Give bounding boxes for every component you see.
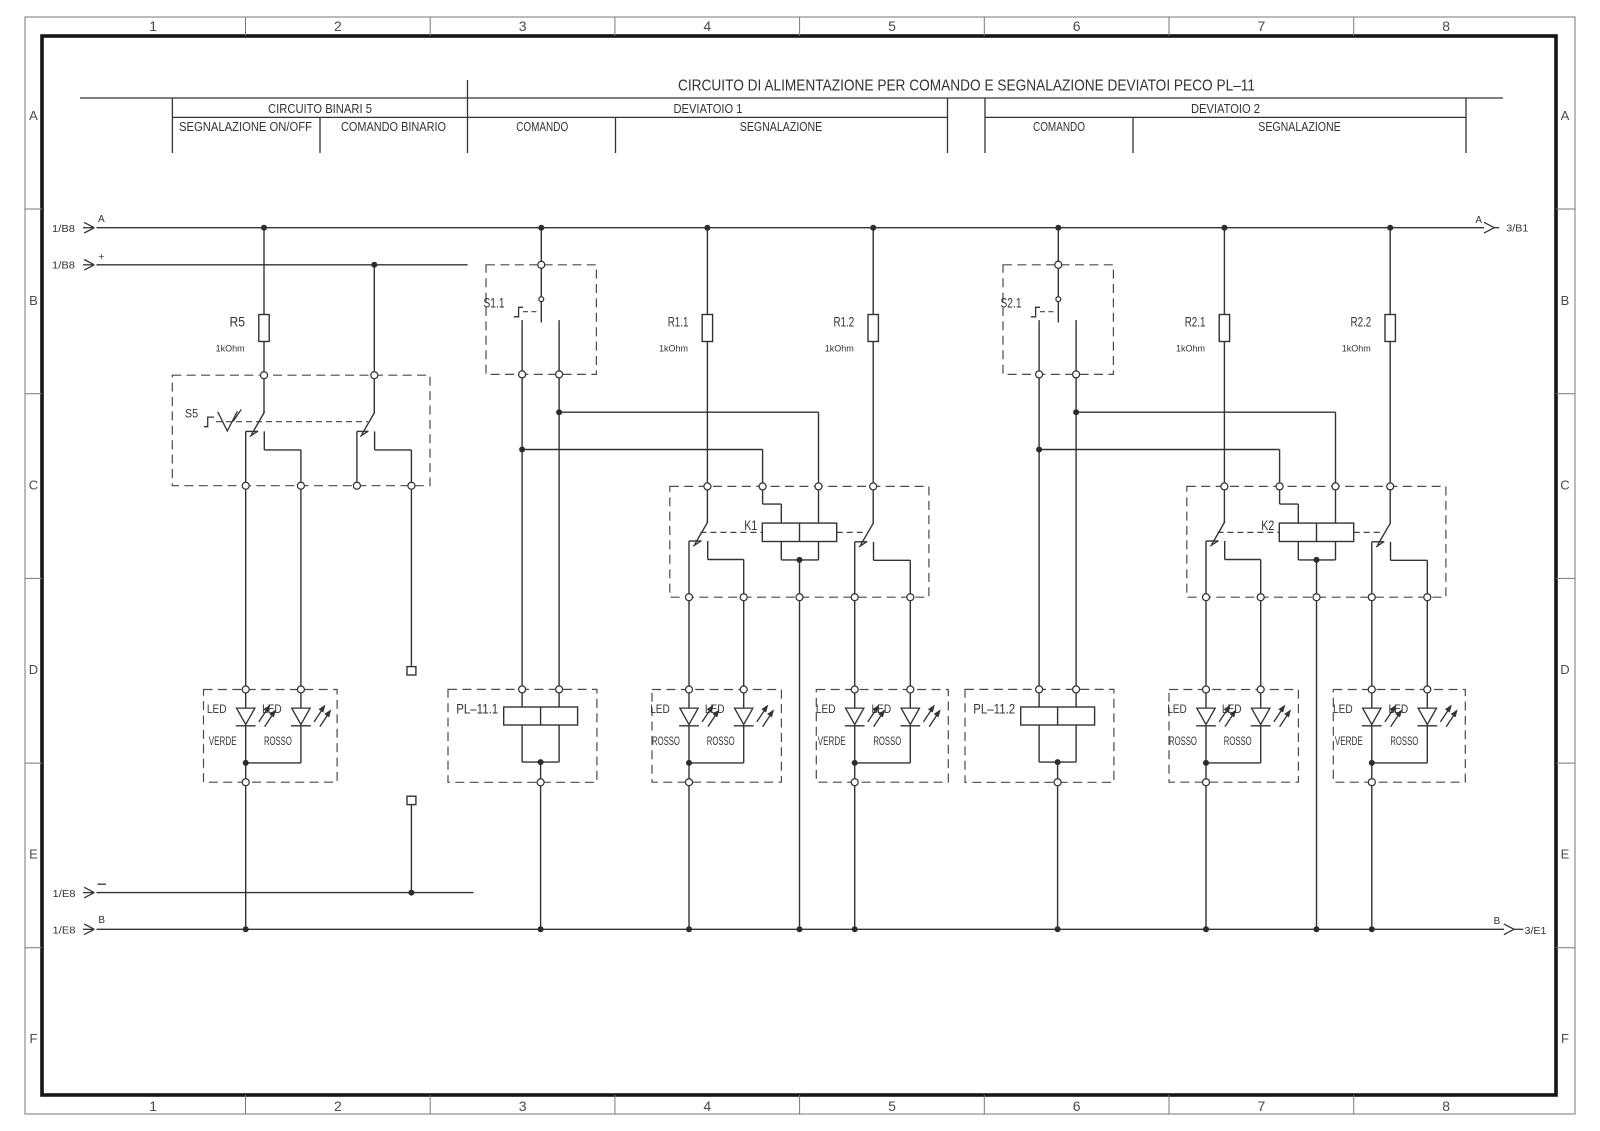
LED symbol G3.1 VERDE xyxy=(846,708,864,724)
switch S2.1 link dashed xyxy=(1040,311,1057,313)
terminals S2.1 box xyxy=(1055,261,1062,268)
relay K2 link dashed right xyxy=(1354,531,1384,533)
wire link upper to relay coil xyxy=(559,411,818,413)
svg-text:A: A xyxy=(98,214,105,225)
wire LED G2 to B bus xyxy=(688,782,690,929)
source arrow 1/B8 A xyxy=(83,227,94,229)
LED symbol G4.1 ROSSO xyxy=(1197,708,1215,724)
svg-text:LED: LED xyxy=(650,702,670,716)
wire pushbutton right contact to PL box xyxy=(558,374,560,707)
LED symbol G2.1 ROSSO xyxy=(680,708,698,724)
column grid ticks bottom xyxy=(245,1095,247,1114)
wire LED G5 cathode left xyxy=(1371,726,1373,782)
svg-text:LED: LED xyxy=(1222,702,1242,716)
svg-text:1: 1 xyxy=(149,18,157,34)
wire K1 contact to LED G2 left xyxy=(688,597,690,708)
wire LED G3 cathode right join xyxy=(909,726,911,763)
switch pole S5.2 blade xyxy=(362,413,375,435)
wire connector square to - bus xyxy=(410,805,412,893)
svg-text:1/B8: 1/B8 xyxy=(52,224,75,235)
actuator PL-11.2 coil rectangle xyxy=(1021,707,1095,725)
svg-text:1kOhm: 1kOhm xyxy=(659,344,688,355)
LED symbol G1.1 VERDE xyxy=(237,708,255,724)
junction dot on + bus xyxy=(371,262,377,268)
relay K1 link dashed right xyxy=(837,531,867,533)
switch S2.1 plunger blade xyxy=(1057,302,1059,323)
wire pushbutton left contact to PL box xyxy=(521,374,523,707)
switch S5 mechanical link dashed xyxy=(216,421,368,423)
switch pole K2 left right contact xyxy=(1224,541,1226,560)
svg-text:1/B8: 1/B8 xyxy=(52,261,75,272)
svg-text:K1: K1 xyxy=(744,517,757,533)
relay K1 coil input left xyxy=(762,486,764,504)
svg-text:2: 2 xyxy=(334,1098,342,1114)
switch pole K2 left common wire xyxy=(1223,521,1225,524)
svg-text:LED: LED xyxy=(1389,702,1409,716)
svg-text:PL–11.1: PL–11.1 xyxy=(456,702,498,717)
resistor R2.2 xyxy=(1385,315,1395,342)
svg-text:6: 6 xyxy=(1073,18,1081,34)
svg-text:7: 7 xyxy=(1258,18,1266,34)
terminals K1 box xyxy=(704,483,711,490)
svg-text:5: 5 xyxy=(888,18,896,34)
wire PL-11.1 bottom join xyxy=(521,725,523,762)
svg-text:LED: LED xyxy=(872,702,892,716)
svg-text:8: 8 xyxy=(1442,1098,1450,1114)
LED symbol G2.2 ROSSO xyxy=(735,708,753,724)
svg-text:3: 3 xyxy=(519,18,527,34)
LED symbol G5.1 VERDE xyxy=(1363,708,1381,724)
svg-text:COMANDO: COMANDO xyxy=(1033,119,1085,134)
switch pole S5.1 common wire xyxy=(263,411,265,414)
resistor R1.1 xyxy=(702,315,712,342)
wire + bus to S5 pole 2 xyxy=(373,265,375,413)
wire K2 contact to LED G4 right xyxy=(1260,597,1262,708)
relay K1 coil xyxy=(762,523,836,541)
svg-text:ROSSO: ROSSO xyxy=(264,734,292,748)
wire LED G1 to B bus xyxy=(245,782,247,929)
relay K2 coil output join xyxy=(1297,542,1299,560)
wire K2 left switch common xyxy=(1223,486,1225,522)
svg-text:ROSSO: ROSSO xyxy=(652,734,680,748)
relay K1 coil output join xyxy=(780,542,782,560)
header divider x=985 xyxy=(984,98,986,153)
node - bus line xyxy=(97,892,474,894)
junction dots on A bus xyxy=(261,225,267,231)
header divider x=1466 xyxy=(1465,98,1467,153)
svg-text:SEGNALAZIONE: SEGNALAZIONE xyxy=(1258,119,1341,134)
svg-text:R5: R5 xyxy=(230,314,246,330)
wire R1.2 to K1 xyxy=(872,342,874,487)
relay K1 enclosure dashed box xyxy=(670,486,929,597)
wire LED G3 cathode left xyxy=(854,726,856,782)
LED group G4 enclosure dashed box xyxy=(1169,690,1298,783)
connector square upper xyxy=(407,667,416,675)
svg-text:E: E xyxy=(29,847,38,862)
switch pole K1 left blade xyxy=(695,523,708,545)
svg-text:4: 4 xyxy=(703,18,711,34)
relay K2 coil input right xyxy=(1335,486,1337,523)
wire LED G2 cathode left xyxy=(688,726,690,782)
wire PL-11.2 to B bus xyxy=(1057,762,1059,929)
svg-text:5: 5 xyxy=(888,1098,896,1114)
switch pole K2 right right contact xyxy=(1390,542,1392,561)
wire pushbutton right contact to PL box xyxy=(1075,374,1077,707)
wire A bus to S2.1 xyxy=(1057,228,1059,297)
LED symbol G1.2 ROSSO xyxy=(292,708,310,724)
switch S1.1 enclosure dashed box xyxy=(486,265,596,375)
svg-text:VERDE: VERDE xyxy=(818,734,846,748)
wire R2.1 from A bus xyxy=(1223,228,1225,315)
svg-text:S1.1: S1.1 xyxy=(484,295,505,311)
wire K1 contact to LED G2 right xyxy=(743,597,745,708)
wire PL-11.1 to B bus xyxy=(540,762,542,929)
svg-text:1kOhm: 1kOhm xyxy=(825,344,854,355)
LED symbol G4.2 ROSSO xyxy=(1252,708,1270,724)
resistor R5 xyxy=(259,315,269,342)
wire link upper to relay coil xyxy=(1076,411,1335,413)
actuator PL-11.1 coil rectangle xyxy=(504,707,578,725)
wire LED G2 cathode right join xyxy=(743,726,745,763)
switch S2.1 fixed contact circle xyxy=(1056,297,1061,302)
switch pole K1 left left contact xyxy=(689,540,701,542)
wire K2 contact to LED G5 right xyxy=(1426,597,1428,708)
svg-text:DEVIATOIO 2: DEVIATOIO 2 xyxy=(1191,101,1260,116)
LED symbol G3.2 ROSSO xyxy=(901,708,919,724)
svg-text:LED: LED xyxy=(705,702,725,716)
actuator PL-11.1 enclosure dashed box xyxy=(448,689,597,782)
row grid ticks right xyxy=(1556,208,1575,210)
switch S2.1 right contact wire xyxy=(1075,320,1077,374)
header divider x=615 xyxy=(615,117,617,153)
svg-text:LED: LED xyxy=(1333,702,1353,716)
svg-text:3/B1: 3/B1 xyxy=(1506,224,1528,235)
column grid ticks top xyxy=(245,17,247,36)
switch S2.1 left contact wire xyxy=(1038,320,1040,374)
relay K2 coil input left xyxy=(1279,486,1281,504)
svg-text:1kOhm: 1kOhm xyxy=(1176,344,1205,355)
LED group G5 enclosure dashed box xyxy=(1333,690,1465,783)
switch pole K1 right right contact xyxy=(873,542,875,561)
wire S5 contact to LED group 1 left xyxy=(245,486,247,708)
wire K2 contact to LED G4 left xyxy=(1205,597,1207,708)
svg-text:VERDE: VERDE xyxy=(1335,734,1363,748)
header divider x=1133 xyxy=(1132,117,1134,153)
svg-text:R2.2: R2.2 xyxy=(1351,314,1372,330)
svg-text:COMANDO: COMANDO xyxy=(516,119,568,134)
svg-text:SEGNALAZIONE ON/OFF: SEGNALAZIONE ON/OFF xyxy=(179,119,312,134)
wire LED G1 cathode right join xyxy=(300,726,302,763)
switch pole K1 right left contact xyxy=(855,541,868,543)
switch pole K2 left left contact xyxy=(1206,540,1218,542)
svg-text:3/E1: 3/E1 xyxy=(1525,926,1547,937)
svg-text:R2.1: R2.1 xyxy=(1185,314,1206,330)
svg-text:4: 4 xyxy=(703,1098,711,1114)
svg-text:COMANDO BINARIO: COMANDO BINARIO xyxy=(341,119,446,134)
resistor R2.1 xyxy=(1219,315,1229,342)
LED group G1 enclosure dashed box xyxy=(204,690,338,783)
connector square lower xyxy=(407,796,416,804)
svg-text:K2: K2 xyxy=(1261,517,1274,533)
wire R5 from A bus xyxy=(263,228,265,315)
header divider x=320 xyxy=(319,117,321,153)
switch pole S5.2 common wire xyxy=(373,411,375,414)
relay K2 link dashed left xyxy=(1217,531,1279,533)
switch pole S5.2 right contact xyxy=(374,431,376,450)
svg-text:SEGNALAZIONE: SEGNALAZIONE xyxy=(740,119,823,134)
svg-text:2: 2 xyxy=(334,18,342,34)
svg-text:E: E xyxy=(1561,847,1570,862)
wire LED G3 to B bus xyxy=(854,782,856,929)
svg-text:8: 8 xyxy=(1442,18,1450,34)
switch pole K1 left common wire xyxy=(706,521,708,524)
wire R2.1 to K2 xyxy=(1223,342,1225,487)
svg-text:B: B xyxy=(29,293,38,308)
switch pole S5.1 blade xyxy=(251,413,264,435)
header row divider line right zone xyxy=(985,116,1466,118)
svg-text:3: 3 xyxy=(519,1098,527,1114)
destination arrow A 3/B1 xyxy=(1484,222,1494,227)
junction dots on B bus xyxy=(243,926,249,932)
source arrow 1/E8 - xyxy=(83,892,94,894)
wire R1.1 to K1 xyxy=(706,342,708,487)
switch S1.1 right contact wire xyxy=(558,320,560,374)
svg-text:ROSSO: ROSSO xyxy=(707,734,735,748)
terminals S5 box xyxy=(261,372,268,379)
wire link lower to relay coil xyxy=(522,449,763,451)
wire link lower to relay coil xyxy=(1039,449,1280,451)
source arrow 1/E8 B xyxy=(83,928,94,930)
switch S5 position symbol V xyxy=(218,411,238,431)
relay K1 coil input right xyxy=(818,486,820,523)
switch pole K2 right blade xyxy=(1378,523,1391,545)
LED group G3 enclosure dashed box xyxy=(816,690,948,783)
switch S1.1 link dashed xyxy=(523,311,540,313)
wire K1 contact to LED G3 left xyxy=(854,597,856,708)
wire LED G5 to B bus xyxy=(1371,782,1373,929)
wire LED G4 cathode right join xyxy=(1260,726,1262,763)
switch pole K1 left right contact xyxy=(707,541,709,560)
svg-text:ROSSO: ROSSO xyxy=(873,734,901,748)
destination arrow B 3/E1 xyxy=(1504,924,1514,929)
LED group G2 enclosure dashed box xyxy=(652,690,781,783)
svg-text:CIRCUITO DI ALIMENTAZIONE P: CIRCUITO DI ALIMENTAZIONE PER COMANDO E … xyxy=(678,78,1255,95)
wire K2 coil return xyxy=(1316,560,1318,929)
svg-text:LED: LED xyxy=(1167,702,1187,716)
header line under title xyxy=(80,97,1503,99)
svg-text:F: F xyxy=(1561,1031,1569,1046)
wire LED G1 cathode left xyxy=(245,726,247,782)
LED symbol G5.2 ROSSO xyxy=(1418,708,1436,724)
svg-text:1: 1 xyxy=(149,1098,157,1114)
header divider x=467 xyxy=(467,80,469,153)
wire K1 contact to LED G3 right xyxy=(909,597,911,708)
svg-text:PL–11.2: PL–11.2 xyxy=(973,702,1015,717)
wire S5 contact to connector square xyxy=(410,486,412,667)
switch pole S5.1 left contact xyxy=(246,430,258,432)
svg-text:D: D xyxy=(1560,662,1569,677)
source arrow 1/B8 + xyxy=(83,264,94,266)
switch pole K1 right common wire xyxy=(872,521,874,524)
wire R2.2 to K2 xyxy=(1389,342,1391,487)
terminals LED boxes bottom xyxy=(242,779,249,786)
svg-text:A: A xyxy=(1475,215,1482,226)
switch pole K2 right left contact xyxy=(1372,541,1384,543)
svg-text:D: D xyxy=(29,662,38,677)
header row divider line left zone xyxy=(172,116,947,118)
junction dot on - bus xyxy=(408,890,414,896)
terminals S1.1 box xyxy=(538,261,545,268)
wire LED G5 cathode right join xyxy=(1426,726,1428,763)
switch S5 manual actuator hook xyxy=(204,417,214,427)
terminals PL boxes xyxy=(519,686,526,693)
svg-text:B: B xyxy=(98,915,105,926)
terminals K2 box xyxy=(1221,483,1228,490)
junction dots on link wires xyxy=(556,409,562,415)
switch pole S5.1 right contact xyxy=(263,431,265,450)
switch S2.1 manual actuator hook xyxy=(1031,307,1040,317)
switch pole K2 left blade xyxy=(1212,523,1225,545)
wire K1 right switch common xyxy=(872,486,874,523)
wire pushbutton left contact to PL box xyxy=(1038,374,1040,707)
wire K2 contact to LED G5 left xyxy=(1371,597,1373,708)
svg-text:S5: S5 xyxy=(185,406,198,420)
switch pole S5.2 left contact xyxy=(357,430,368,432)
switch pole K1 right blade xyxy=(861,523,874,545)
switch S2.1 enclosure dashed box xyxy=(1003,265,1113,375)
svg-text:VERDE: VERDE xyxy=(209,734,237,748)
wire R1.2 from A bus xyxy=(872,228,874,315)
node B bus line xyxy=(97,928,1505,930)
svg-text:CIRCUITO BINARI 5: CIRCUITO BINARI 5 xyxy=(268,101,372,116)
header divider x=947 xyxy=(947,98,949,153)
actuator PL-11.2 enclosure dashed box xyxy=(965,689,1114,782)
svg-text:A: A xyxy=(1561,108,1570,123)
svg-text:LED: LED xyxy=(207,702,227,716)
svg-text:C: C xyxy=(1560,477,1569,492)
wire S5 contact to LED group 1 right xyxy=(300,486,302,708)
svg-text:C: C xyxy=(29,477,38,492)
svg-text:R1.1: R1.1 xyxy=(668,314,689,330)
svg-text:F: F xyxy=(30,1031,38,1046)
wire K1 coil return xyxy=(799,560,801,929)
switch S1.1 plunger blade xyxy=(540,302,542,323)
wire R2.2 from A bus xyxy=(1389,228,1391,315)
svg-text:A: A xyxy=(29,108,38,123)
relay K2 enclosure dashed box xyxy=(1187,486,1446,597)
svg-text:1kOhm: 1kOhm xyxy=(216,344,245,355)
wire A bus to S1.1 xyxy=(540,228,542,297)
relay K2 coil xyxy=(1279,523,1353,541)
switch S1.1 manual actuator hook xyxy=(514,307,523,317)
wire K2 right switch common xyxy=(1389,486,1391,523)
resistor R1.2 xyxy=(868,315,878,342)
svg-text:B: B xyxy=(1561,293,1570,308)
svg-text:1/E8: 1/E8 xyxy=(53,926,76,937)
svg-text:1kOhm: 1kOhm xyxy=(1342,344,1371,355)
svg-text:ROSSO: ROSSO xyxy=(1390,734,1418,748)
wire PL-11.2 bottom join xyxy=(1038,725,1040,762)
node + bus line xyxy=(97,264,468,266)
row grid ticks left xyxy=(25,208,42,210)
header divider x=172 xyxy=(171,98,173,153)
switch S5 enclosure dashed box xyxy=(172,375,430,486)
wire LED G4 cathode left xyxy=(1205,726,1207,782)
svg-text:6: 6 xyxy=(1073,1098,1081,1114)
wire K1 left switch common xyxy=(706,486,708,522)
svg-text:LED: LED xyxy=(816,702,836,716)
wire R1.1 from A bus xyxy=(706,228,708,315)
svg-text:7: 7 xyxy=(1258,1098,1266,1114)
wire LED G4 to B bus xyxy=(1205,782,1207,929)
svg-text:1/E8: 1/E8 xyxy=(53,889,76,900)
svg-text:S2.1: S2.1 xyxy=(1001,295,1022,311)
svg-text:B: B xyxy=(1494,916,1501,927)
node A bus line xyxy=(97,227,1485,229)
switch pole K2 right common wire xyxy=(1389,521,1391,524)
svg-text:LED: LED xyxy=(262,702,282,716)
terminals LED boxes top xyxy=(242,686,249,693)
svg-text:+: + xyxy=(98,251,104,263)
switch S1.1 left contact wire xyxy=(521,320,523,374)
svg-text:ROSSO: ROSSO xyxy=(1169,734,1197,748)
svg-text:DEVIATOIO 1: DEVIATOIO 1 xyxy=(674,101,743,116)
wire R5 to S5 xyxy=(263,342,265,413)
svg-text:R1.2: R1.2 xyxy=(834,314,855,330)
switch S1.1 fixed contact circle xyxy=(539,297,544,302)
relay K1 link dashed left xyxy=(700,531,762,533)
svg-text:ROSSO: ROSSO xyxy=(1224,734,1252,748)
